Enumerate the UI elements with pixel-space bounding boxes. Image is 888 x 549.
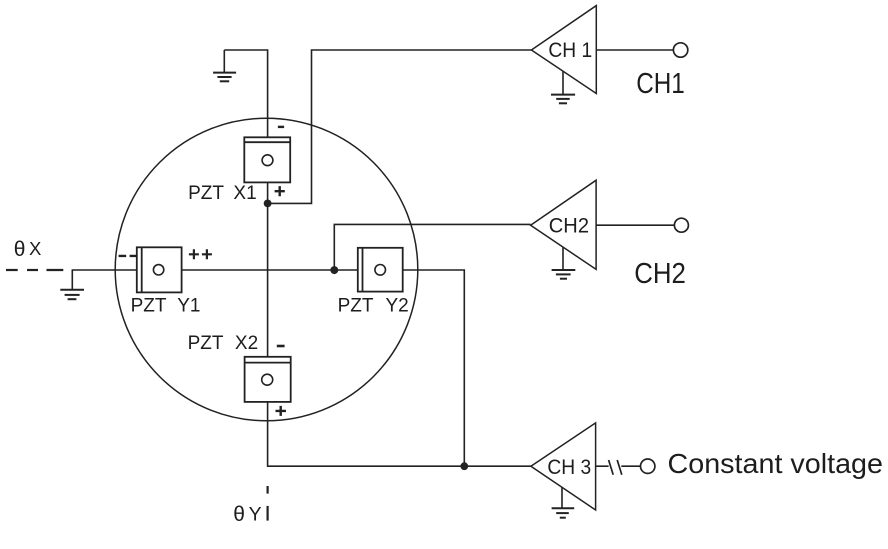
svg-text:Constant voltage: Constant voltage — [668, 448, 884, 479]
svg-text:CH2: CH2 — [549, 214, 589, 238]
svg-text:CH2: CH2 — [634, 258, 686, 290]
svg-text:X1: X1 — [233, 183, 256, 204]
svg-text:Y1: Y1 — [177, 295, 200, 316]
svg-text:PZT: PZT — [338, 295, 374, 316]
svg-text:CH1: CH1 — [636, 68, 685, 100]
svg-text:CH 1: CH 1 — [548, 38, 592, 62]
svg-text:θ: θ — [14, 238, 26, 261]
svg-text:Y: Y — [249, 504, 262, 526]
svg-text:PZT: PZT — [188, 183, 224, 204]
svg-text:PZT: PZT — [188, 333, 224, 354]
svg-text:Y2: Y2 — [386, 295, 409, 316]
svg-text:CH 3: CH 3 — [547, 455, 591, 479]
svg-text:θ: θ — [233, 503, 245, 526]
svg-text:X2: X2 — [235, 333, 258, 354]
svg-text:PZT: PZT — [131, 295, 167, 316]
svg-text:X: X — [29, 238, 41, 259]
